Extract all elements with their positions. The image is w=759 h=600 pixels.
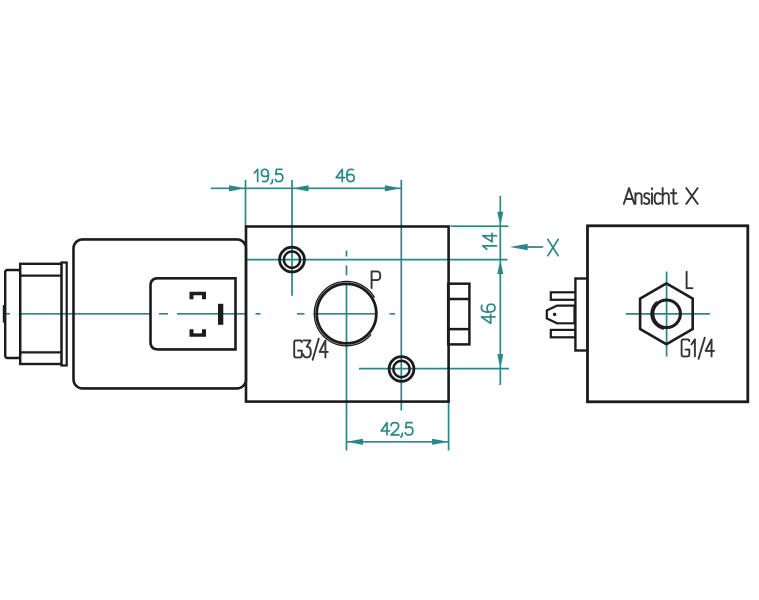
Ansicht block bbox=[588, 226, 748, 402]
side port divider top bbox=[448, 298, 469, 301]
Ansicht ground flag pin bbox=[547, 306, 575, 324]
port P vertical centerline bbox=[346, 251, 348, 451]
screw hole bottom outer bbox=[389, 357, 414, 382]
dim text 14 (vertical) bbox=[483, 233, 497, 249]
side port stack bbox=[448, 284, 469, 345]
nut facet top bbox=[20, 275, 61, 277]
connector pin bottom bbox=[190, 329, 207, 337]
manual override cap bbox=[5, 270, 20, 358]
DIN connector face bbox=[151, 278, 236, 349]
dimension line 42,5 bbox=[347, 441, 449, 443]
extension line block top-left corner bbox=[245, 180, 247, 227]
arrowhead 46 left bbox=[292, 185, 309, 191]
extension line block top edge right bbox=[451, 225, 509, 227]
hexagon vertical centerline bbox=[666, 272, 668, 357]
view arrow X line bbox=[527, 246, 543, 248]
arrowhead 46 bottom bbox=[497, 354, 503, 369]
side port divider bottom bbox=[448, 328, 469, 331]
L port bore ring bbox=[653, 300, 681, 328]
arrowhead view X bbox=[510, 244, 528, 250]
extension line block right bottom bbox=[448, 402, 450, 451]
arrowhead 46 right bbox=[385, 185, 402, 191]
top screw vertical centerline / extension bbox=[291, 180, 293, 296]
main axis centerline bbox=[6, 313, 395, 315]
dim text 46 top bbox=[336, 169, 354, 181]
connector pin right bbox=[218, 304, 223, 325]
dim text 19,5 bbox=[254, 169, 282, 183]
dim text 42,5 bbox=[381, 423, 413, 437]
arrowhead 14 top bbox=[497, 212, 503, 227]
label X title bbox=[686, 188, 698, 204]
ground pin rivet bbox=[553, 313, 556, 316]
connector mounting plate (Ansicht) bbox=[575, 279, 587, 351]
cap tick bbox=[3, 305, 6, 323]
arrowhead 42,5 left bbox=[347, 439, 364, 445]
nut facet bottom bbox=[20, 351, 61, 353]
screw hole top inner bbox=[284, 252, 300, 268]
dimension line 19,5 and 46 top bbox=[211, 187, 401, 189]
bottom screw vertical centerline / extension bbox=[400, 180, 402, 411]
arrowhead 14/46 shared bbox=[497, 260, 503, 275]
Ansicht pin top tab bbox=[551, 292, 576, 300]
tube nut bbox=[20, 264, 61, 364]
port P thread arc bbox=[301, 268, 392, 359]
view label X bbox=[548, 239, 558, 255]
hexagon horizontal centerline bbox=[626, 313, 710, 315]
arrowhead 19,5 left bbox=[229, 185, 246, 191]
arrowhead 42,5 right bbox=[432, 439, 449, 445]
screw hole top outer bbox=[280, 247, 305, 272]
screw hole bottom inner bbox=[393, 361, 409, 377]
bottom screw horizontal centerline bbox=[359, 368, 509, 370]
L port thread arc bbox=[648, 296, 684, 332]
top screw horizontal centerline bbox=[248, 259, 508, 261]
label G3/4 bbox=[294, 339, 328, 360]
port P bore bbox=[317, 284, 377, 344]
label P bbox=[372, 271, 381, 288]
label Ansicht bbox=[624, 188, 678, 204]
label L bbox=[687, 272, 693, 289]
washer bbox=[62, 263, 67, 366]
solenoid coil body bbox=[74, 239, 247, 388]
dim text 46 right (vertical) bbox=[481, 304, 495, 323]
Ansicht pin bottom tab bbox=[551, 330, 576, 337]
right vertical dimension line bbox=[499, 196, 501, 385]
valve block bbox=[246, 227, 449, 402]
connector pin top bbox=[190, 292, 207, 300]
hex nut L port bbox=[640, 283, 693, 344]
label G1/4 bbox=[682, 338, 714, 359]
